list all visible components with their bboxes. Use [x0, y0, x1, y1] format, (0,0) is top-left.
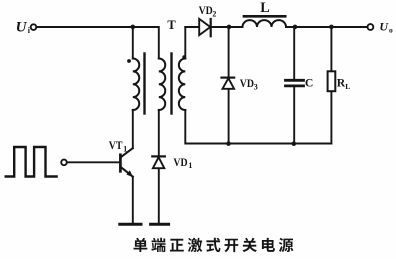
svg-text:VD: VD [199, 4, 213, 17]
svg-text:VD: VD [173, 156, 187, 169]
svg-text:2: 2 [212, 9, 216, 18]
svg-text:T: T [167, 18, 176, 32]
svg-text:o: o [389, 25, 393, 34]
svg-text:C: C [305, 77, 313, 90]
svg-text:VT: VT [109, 139, 123, 152]
svg-text:L: L [260, 0, 269, 16]
svg-text:U: U [16, 19, 28, 35]
svg-text:3: 3 [254, 82, 258, 91]
svg-text:VD: VD [240, 77, 254, 90]
svg-text:1: 1 [123, 144, 127, 153]
svg-text:1: 1 [188, 161, 192, 170]
svg-text:U: U [379, 20, 389, 34]
svg-text:L: L [345, 82, 350, 91]
